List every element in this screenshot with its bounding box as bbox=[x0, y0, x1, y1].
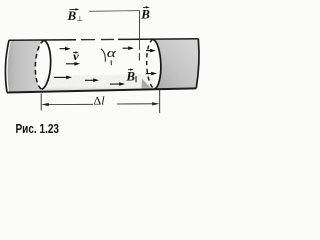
label v bbox=[73, 49, 80, 63]
svg-text:B: B bbox=[140, 7, 150, 22]
right cross-section ellipse solid near half bbox=[153, 39, 161, 89]
svg-text:Рис. 1.23: Рис. 1.23 bbox=[16, 121, 60, 136]
top bracket vertical line bbox=[139, 11, 141, 50]
cylinder top edge solid left part bbox=[9, 39, 76, 42]
field arrow (upper, near bracket) bbox=[123, 47, 130, 49]
dashed continuation of B line bbox=[138, 53, 140, 60]
scan grain over shaded ends bbox=[8, 39, 199, 92]
left end shading bbox=[8, 40, 45, 91]
field arrow crossing right ellipse (upper) bbox=[146, 50, 152, 52]
inner-wall shading left of right ellipse bottom bbox=[142, 79, 153, 91]
label B (top) bbox=[140, 6, 150, 22]
cylinder left edge bbox=[5, 40, 9, 92]
svg-text:v: v bbox=[73, 49, 80, 63]
middle lower faint shading bbox=[42, 72, 155, 91]
field arrow lower-middle bbox=[85, 79, 95, 81]
left cross-section ellipse solid near half bbox=[42, 40, 51, 89]
svg-text:∥: ∥ bbox=[135, 75, 138, 83]
left cross-section ellipse dashed far half bbox=[35, 40, 44, 89]
dimension extension line right bbox=[159, 90, 161, 114]
svg-text:α: α bbox=[107, 46, 117, 60]
right cross-section ellipse dashed far half bbox=[147, 39, 155, 89]
cylinder right edge bbox=[196, 39, 199, 89]
cylinder top edge dashes bbox=[81, 38, 114, 40]
svg-text:⊥: ⊥ bbox=[77, 14, 84, 23]
cylinder top edge solid right part bbox=[118, 38, 199, 41]
short vertical dash below alpha bbox=[110, 60, 112, 65]
right end shading bbox=[153, 39, 199, 89]
svg-text:B: B bbox=[67, 8, 77, 23]
label B-perp bbox=[67, 8, 84, 23]
field arrow lower-left bbox=[54, 76, 68, 78]
field arrow lower-right of middle bbox=[110, 83, 121, 85]
cylinder body group (slight tilt of original scan) bbox=[5, 39, 199, 93]
svg-text:Δl: Δl bbox=[94, 93, 106, 107]
velocity arrow v bbox=[60, 48, 67, 50]
dimension line delta-l bbox=[48, 103, 153, 106]
cylinder bottom edge bbox=[7, 88, 196, 92]
dimension extension line left bbox=[40, 94, 42, 111]
angle alpha arc bbox=[101, 49, 105, 62]
field arrow under v label bbox=[66, 63, 76, 65]
top bracket horizontal line bbox=[89, 10, 139, 13]
label B-parallel bbox=[125, 69, 137, 84]
field arrow crossing right ellipse (lower) bbox=[146, 73, 153, 75]
